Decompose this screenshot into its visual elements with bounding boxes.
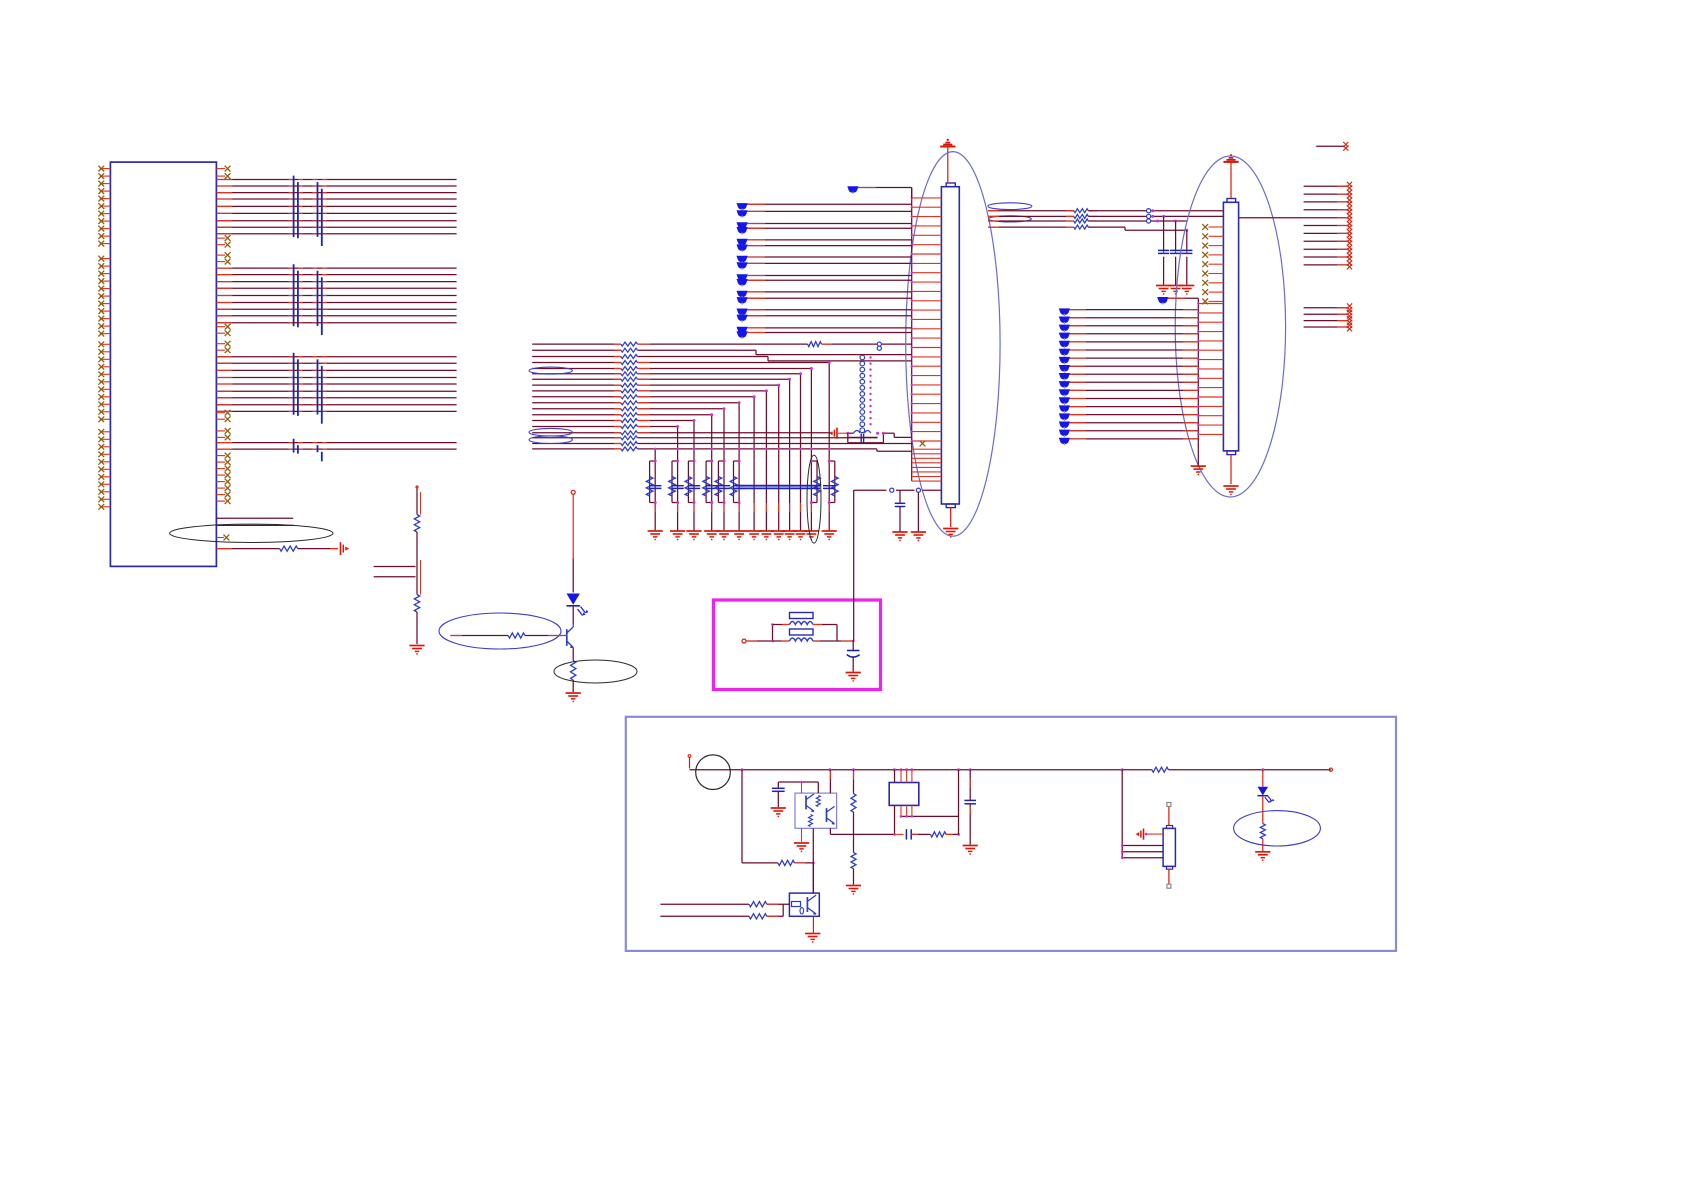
jumper circle (916, 488, 920, 492)
capacitor (1158, 250, 1169, 253)
RC leg 5 wire (723, 449, 725, 531)
RC leg 9 wire (778, 449, 780, 531)
capacitor (1181, 250, 1192, 253)
optocoupler U4 box (789, 893, 819, 916)
opto diode (792, 902, 804, 915)
series capacitor column 1 group 4 (294, 439, 298, 454)
resistor R4 (1074, 225, 1089, 229)
capacitor (964, 800, 976, 803)
series capacitor column 2 group 3 (318, 359, 322, 423)
resistor (508, 633, 525, 638)
wire (572, 648, 574, 661)
wire (950, 508, 952, 527)
wire (812, 863, 814, 893)
RC leg 1 wire (654, 449, 656, 531)
resistor (931, 832, 947, 837)
ground (1168, 286, 1183, 295)
wire (900, 815, 959, 818)
RC leg 13 ground (822, 531, 837, 540)
transformer circle (696, 755, 731, 790)
wire (1230, 455, 1232, 484)
wire (660, 903, 749, 905)
wire (836, 625, 838, 642)
wire (216, 517, 293, 519)
RC leg 4 resistor branch (703, 460, 713, 505)
RC leg 10 wire (789, 449, 791, 531)
wire (852, 641, 854, 648)
ground (left-facing) (829, 428, 837, 439)
RC leg 3 capacitor (688, 486, 700, 489)
wire (1230, 163, 1232, 199)
wire (917, 492, 919, 532)
wire (1163, 216, 1165, 285)
RC leg 6 resistor branch (730, 460, 740, 505)
resistor R3 (1074, 219, 1089, 223)
wire (1186, 230, 1188, 285)
RC leg 2 ground (670, 531, 685, 540)
bus wire row 13 (532, 413, 713, 449)
transistor Q1 (567, 625, 574, 649)
wire (853, 580, 855, 641)
wire (572, 680, 574, 692)
transistor Q3 (827, 806, 835, 824)
IC U1 output wire bundle 4 (216, 443, 456, 450)
LED D2 (1258, 787, 1275, 803)
interconnect wire 4 (988, 227, 1187, 230)
jumper circle (1147, 219, 1151, 223)
wire (876, 432, 912, 438)
resistor (851, 794, 856, 813)
wire (1262, 770, 1264, 787)
resistor (280, 546, 298, 551)
RC leg 5 ground (716, 531, 731, 540)
RC leg 2 resistor branch (669, 460, 679, 505)
wire (771, 623, 774, 642)
signal flag wire (1157, 297, 1198, 305)
net highlight ellipse (529, 436, 572, 444)
connector J1 bottom tab (946, 504, 955, 508)
RC leg 8 ground (759, 531, 774, 540)
stub group B (1304, 303, 1353, 331)
series capacitor column 1 group 1 (294, 176, 298, 239)
optocoupler U2 box (795, 793, 837, 828)
resonator plate (790, 613, 814, 619)
capacitor (906, 829, 911, 839)
junction dots (1151, 209, 1188, 232)
RC leg 7 ground (747, 531, 762, 540)
ground (right-facing) (341, 542, 350, 555)
wire (572, 494, 574, 592)
resistor (778, 860, 795, 865)
stub group A (1304, 182, 1353, 269)
jumper circle (877, 342, 881, 346)
ground (1179, 286, 1194, 295)
connector J2 signal bundle with net flags (1059, 308, 1199, 445)
wire (911, 833, 930, 835)
bus wire row 12 (532, 407, 725, 449)
wire (216, 548, 338, 550)
connector J2 bottom tab (1227, 451, 1236, 455)
resistor (571, 661, 576, 681)
connector J2 top tab (1227, 199, 1236, 203)
ground (911, 532, 926, 541)
LED D1 (567, 594, 589, 616)
connector J1 lower pin stubs (912, 449, 942, 481)
RC leg 12 ground (804, 531, 819, 540)
bus wire row 3 (532, 357, 912, 361)
base highlight ellipse (439, 613, 561, 649)
ground (892, 532, 907, 541)
signal pair 8 with net flags (737, 327, 912, 339)
power rail symbol (940, 139, 955, 147)
jumper circle (877, 346, 881, 350)
signal pair 6 with net flags (737, 291, 912, 305)
series capacitor column 2 group 4 (318, 445, 322, 461)
IC U1 left pin group 4 no-connect X pins (98, 429, 110, 510)
wire (1262, 839, 1264, 851)
ground (1255, 852, 1270, 861)
RC leg 3 ground (686, 531, 701, 540)
wire (767, 903, 790, 905)
terminal (571, 490, 575, 494)
trimmer pot body (1163, 826, 1175, 870)
inductor L1 (790, 622, 814, 625)
jumper circle (1147, 214, 1151, 218)
RC leg 10 ground (782, 531, 797, 540)
jumper chain dots (869, 356, 871, 425)
interconnect wire 3 (988, 220, 1187, 222)
bus wire row 8 (532, 384, 780, 449)
capacitor (772, 782, 785, 807)
wire (374, 576, 416, 578)
resonator plate (790, 629, 814, 635)
highlight ellipse (1234, 811, 1321, 846)
wire (1262, 796, 1264, 824)
connector J1 highlight ellipse (906, 152, 1000, 537)
wire (813, 640, 855, 643)
annotation box (magenta) (714, 600, 881, 690)
bus vertical (1197, 298, 1199, 466)
wire (830, 828, 903, 836)
resistor (1152, 767, 1169, 772)
RC leg 11 ground (793, 531, 808, 540)
no-connect pin (216, 535, 229, 541)
signal pair 2 with net flags (737, 222, 912, 234)
capacitor C (polarized) (847, 651, 860, 658)
RC leg 13 resistor branch (828, 460, 838, 505)
bus wire row 19 (532, 449, 912, 451)
wire (958, 770, 960, 835)
resistor (816, 796, 820, 807)
highlight ellipse (807, 455, 821, 543)
terminal (742, 639, 746, 643)
wire (801, 828, 803, 842)
RC leg 11 wire (800, 449, 802, 531)
wire (660, 915, 749, 917)
signal pair 3 with net flags (737, 239, 912, 252)
resistor (851, 853, 856, 869)
RC leg 4 ground (704, 531, 719, 540)
capacitor (895, 490, 906, 532)
resistor (414, 515, 419, 533)
ground (1156, 286, 1171, 295)
jumper circle chain (860, 355, 865, 426)
wire (742, 770, 778, 863)
terminal (688, 755, 691, 769)
signal flag wire (847, 186, 911, 198)
wire (853, 770, 855, 885)
resistor R1 (1074, 209, 1089, 213)
bus wire row 4 (532, 361, 831, 449)
series capacitor column 2 group 2 (318, 271, 322, 335)
ground (943, 529, 958, 538)
capacitor (861, 434, 863, 443)
RC leg 2 capacitor (671, 486, 683, 489)
interconnect wire 2 (988, 215, 1223, 217)
wire (838, 432, 854, 435)
merged capacitor band (736, 486, 820, 489)
RC leg 2 wire (677, 449, 679, 531)
test pad (1167, 803, 1171, 826)
wire (822, 343, 912, 345)
RC leg 4 capacitor (706, 486, 718, 489)
wire (1121, 770, 1123, 858)
jumper circle (890, 488, 894, 492)
bus wire row 18 (532, 443, 912, 445)
capacitor (1170, 250, 1181, 253)
RC leg 3 wire (693, 449, 695, 531)
resistor R2 (1074, 214, 1089, 218)
bus wire row 6 (532, 372, 802, 449)
wire (1121, 850, 1163, 853)
net highlight ellipse (989, 216, 1032, 222)
test pad (1167, 869, 1171, 888)
RC leg 4 wire (711, 449, 713, 531)
wire (746, 640, 773, 642)
emitter highlight ellipse (554, 660, 637, 683)
RC leg 8 wire (765, 449, 767, 531)
regulator IC U3 body (889, 783, 919, 806)
wire (854, 490, 942, 580)
wire (417, 532, 421, 595)
IC U1 body (110, 162, 216, 566)
wire (767, 904, 783, 916)
capacitor (823, 486, 835, 489)
net highlight ellipse (988, 203, 1032, 210)
power rail symbol (1223, 154, 1238, 162)
series capacitor column 2 group 1 (318, 182, 322, 246)
bus wire row 2 (532, 350, 912, 354)
wire (773, 640, 790, 642)
ferrite bead (854, 428, 871, 433)
wire (1121, 857, 1163, 860)
jumper circle (1147, 209, 1151, 213)
IC U1 output wire bundle 3 (216, 357, 456, 412)
wire (572, 606, 574, 625)
bus wire row 5 (532, 367, 813, 449)
RC leg 5 resistor branch (715, 460, 725, 505)
bus wire row 10 (532, 395, 755, 449)
bus wire row 11 (532, 401, 740, 449)
net highlight ellipse (529, 367, 572, 374)
wire (415, 485, 420, 514)
wire (946, 833, 960, 836)
resistor (808, 342, 822, 347)
series capacitor column 1 group 3 (294, 353, 298, 416)
ground (846, 886, 861, 895)
connector J1 body (941, 187, 959, 504)
wire (947, 147, 949, 183)
RC leg 6 wire (738, 449, 740, 531)
wire (1239, 217, 1304, 219)
wire (1145, 833, 1163, 836)
ground (566, 693, 581, 702)
wire (852, 648, 854, 672)
wire (416, 612, 418, 644)
IC U1 left pin group 3 no-connect X pins (98, 341, 110, 422)
ground (771, 808, 786, 817)
wire (216, 524, 293, 526)
net highlight ellipse (529, 428, 572, 436)
RC leg 1 ground (648, 531, 663, 540)
RC leg 6 capacitor (733, 486, 745, 489)
power section box (626, 717, 1396, 951)
RC leg 12 resistor branch (810, 460, 820, 505)
connector J2 no-connect pins (1202, 224, 1223, 304)
resistor (749, 902, 767, 907)
resistor (414, 595, 419, 613)
ground (846, 673, 861, 682)
signal pair 1 with net flags (737, 203, 912, 218)
ground (left-facing) (1136, 829, 1144, 840)
signal pair 5 with net flags (737, 274, 912, 286)
bus wire row 17 (532, 437, 877, 439)
series capacitor column 1 group 2 (294, 264, 298, 327)
wire (1121, 844, 1163, 847)
rail junction dots (654, 448, 831, 451)
RC leg 6 ground (732, 531, 747, 540)
IC U1 left pin group 2 no-connect X pins (98, 256, 110, 337)
RC leg 13 wire (828, 449, 830, 531)
bus wire row 1 (532, 343, 807, 345)
connector J2 pin stubs (1197, 302, 1223, 435)
connector J2 highlight ellipse (1175, 156, 1285, 497)
bus wire row 7 (532, 378, 791, 449)
ground (963, 846, 978, 855)
ground (1191, 466, 1206, 475)
ground (409, 646, 424, 655)
bus vertical (911, 188, 913, 482)
wire (969, 770, 971, 800)
ground (794, 843, 809, 852)
ground (805, 934, 820, 943)
resistor (1260, 824, 1265, 839)
connector J1 top tab (946, 183, 955, 187)
bus wire row 16 (532, 432, 830, 434)
stub wire (1316, 142, 1348, 151)
bus wire row 14 (532, 419, 695, 449)
wire (778, 781, 818, 793)
wire (1175, 221, 1177, 285)
resistor (749, 914, 767, 919)
bus wire row 15 (532, 425, 679, 449)
RC leg 9 ground (771, 531, 786, 540)
transistor Q2 (806, 794, 814, 812)
wire (813, 624, 837, 626)
RC leg 5 capacitor (718, 486, 730, 489)
IC U1 output wire bundle 1 (216, 180, 456, 234)
IC top pins (895, 770, 912, 783)
connector J1 pin stubs (911, 197, 942, 442)
wire (374, 566, 416, 568)
bus wire row 9 (532, 389, 768, 449)
IC U1 output wire bundle 2 (216, 268, 456, 323)
RC leg 1 capacitor (649, 486, 661, 489)
transistor Q4 (807, 895, 816, 915)
signal pair 7 with net flags (737, 309, 912, 323)
wire (969, 804, 971, 845)
IC U1 left pin group 1 no-connect X pins (98, 166, 110, 247)
rail junction dots (741, 768, 1265, 771)
highlight ellipse (170, 524, 333, 542)
signal pair 4 with net flags (737, 256, 912, 270)
RC leg 1 resistor branch (646, 460, 656, 505)
resistor (809, 815, 813, 827)
wire (795, 862, 815, 865)
RC leg 7 wire (753, 449, 755, 531)
wire (812, 828, 814, 893)
connector J2 body (1223, 202, 1238, 451)
resistor array column (621, 342, 638, 451)
interconnect wire 1 (988, 210, 1223, 212)
no-connect X (920, 441, 926, 447)
wire goalpost (848, 433, 884, 443)
IC U1 right no-connect X pins (216, 166, 230, 504)
wire (829, 770, 831, 793)
IC bottom pins (895, 805, 912, 834)
power rail (690, 768, 1333, 771)
wire (450, 635, 566, 637)
wire (773, 624, 790, 626)
inductor L2 (790, 638, 814, 641)
wire (812, 916, 814, 933)
RC leg 3 resistor branch (685, 460, 695, 505)
RC leg 12 wire (810, 449, 812, 531)
ground (1223, 486, 1238, 495)
